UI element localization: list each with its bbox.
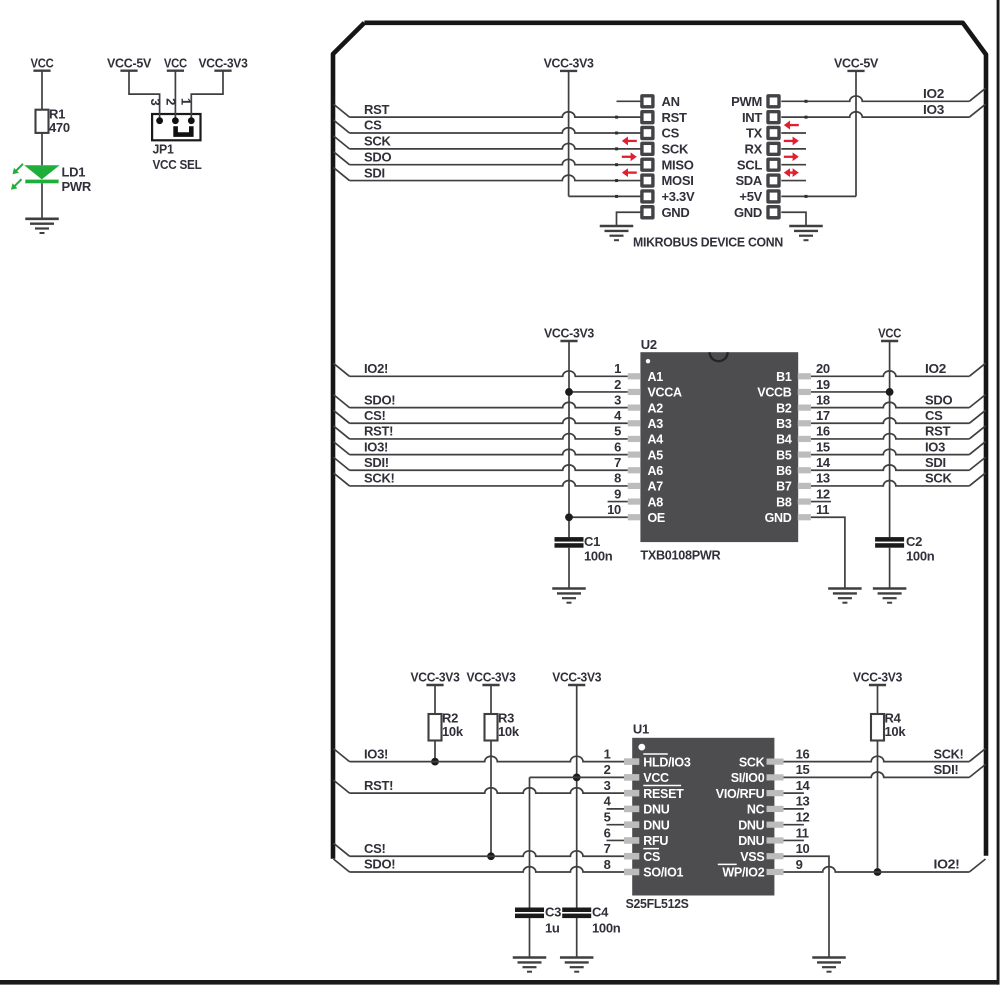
svg-text:2: 2 xyxy=(604,762,611,777)
svg-text:NC: NC xyxy=(747,803,765,817)
svg-text:15: 15 xyxy=(796,762,810,777)
svg-text:A4: A4 xyxy=(648,433,664,447)
svg-text:MISO: MISO xyxy=(662,157,694,172)
svg-text:VCC: VCC xyxy=(164,55,188,70)
svg-text:RX: RX xyxy=(745,141,763,156)
svg-text:VCC: VCC xyxy=(878,326,902,341)
svg-text:11: 11 xyxy=(816,502,829,517)
svg-text:WP/IO2: WP/IO2 xyxy=(722,866,764,880)
svg-text:9: 9 xyxy=(796,857,803,872)
svg-text:100n: 100n xyxy=(906,549,935,564)
svg-text:VCC-5V: VCC-5V xyxy=(107,55,152,70)
svg-text:SDI: SDI xyxy=(364,165,385,180)
svg-text:VCC-3V3: VCC-3V3 xyxy=(467,670,516,685)
svg-text:VCC SEL: VCC SEL xyxy=(153,157,202,172)
svg-text:SDI!: SDI! xyxy=(934,762,959,777)
svg-text:RST: RST xyxy=(925,424,950,439)
svg-text:LD1: LD1 xyxy=(62,164,86,179)
svg-text:470: 470 xyxy=(49,120,70,135)
svg-text:VCC: VCC xyxy=(643,771,669,785)
svg-text:3: 3 xyxy=(148,99,163,106)
svg-text:+3.3V: +3.3V xyxy=(662,189,695,204)
svg-text:5: 5 xyxy=(614,424,621,439)
svg-text:10: 10 xyxy=(796,841,810,856)
svg-text:A8: A8 xyxy=(648,495,664,509)
svg-text:10k: 10k xyxy=(885,724,907,739)
svg-text:RST!: RST! xyxy=(364,778,393,793)
svg-text:CS: CS xyxy=(364,118,382,133)
svg-text:SCK!: SCK! xyxy=(934,746,964,761)
svg-text:IO2: IO2 xyxy=(925,361,946,376)
svg-text:7: 7 xyxy=(614,455,621,470)
svg-text:A7: A7 xyxy=(648,480,664,494)
svg-text:3: 3 xyxy=(604,778,611,793)
svg-text:A1: A1 xyxy=(648,370,664,384)
svg-text:DNU: DNU xyxy=(738,834,764,848)
svg-text:VCC-3V3: VCC-3V3 xyxy=(552,670,601,685)
svg-text:B3: B3 xyxy=(776,417,792,431)
svg-text:VSS: VSS xyxy=(740,850,764,864)
svg-text:OE: OE xyxy=(648,511,665,525)
svg-text:9: 9 xyxy=(614,486,621,501)
svg-text:SDI: SDI xyxy=(925,455,946,470)
svg-text:VCC: VCC xyxy=(31,55,55,70)
svg-text:SCK: SCK xyxy=(739,755,765,769)
svg-text:VCCA: VCCA xyxy=(648,386,682,400)
svg-text:MIKROBUS DEVICE CONN: MIKROBUS DEVICE CONN xyxy=(633,235,783,250)
svg-text:CS: CS xyxy=(925,408,943,423)
svg-text:VCC-3V3: VCC-3V3 xyxy=(199,55,248,70)
svg-text:B8: B8 xyxy=(776,495,792,509)
svg-text:SDI!: SDI! xyxy=(364,455,389,470)
svg-text:10: 10 xyxy=(607,502,621,517)
svg-text:1: 1 xyxy=(604,746,611,761)
svg-text:C4: C4 xyxy=(592,905,609,920)
svg-text:SCK: SCK xyxy=(925,471,952,486)
svg-text:VCCB: VCCB xyxy=(757,386,791,400)
svg-text:IO2!: IO2! xyxy=(934,857,960,872)
svg-text:MOSI: MOSI xyxy=(662,173,694,188)
svg-text:100n: 100n xyxy=(592,921,621,936)
svg-text:RFU: RFU xyxy=(643,834,668,848)
svg-text:SCK: SCK xyxy=(364,134,391,149)
svg-text:14: 14 xyxy=(816,455,831,470)
svg-text:GND: GND xyxy=(765,511,792,525)
svg-text:15: 15 xyxy=(816,439,830,454)
svg-text:A6: A6 xyxy=(648,464,664,478)
svg-text:IO3: IO3 xyxy=(923,102,944,117)
svg-text:16: 16 xyxy=(816,424,830,439)
svg-text:1u: 1u xyxy=(545,921,560,936)
svg-text:B7: B7 xyxy=(776,480,792,494)
svg-text:16: 16 xyxy=(796,746,810,761)
svg-text:C2: C2 xyxy=(906,534,922,549)
svg-text:U1: U1 xyxy=(633,722,649,737)
svg-text:A5: A5 xyxy=(648,448,664,462)
svg-text:DNU: DNU xyxy=(643,803,669,817)
svg-text:13: 13 xyxy=(816,471,830,486)
svg-text:C3: C3 xyxy=(545,905,561,920)
svg-text:B5: B5 xyxy=(776,448,792,462)
svg-text:RST!: RST! xyxy=(364,424,393,439)
svg-text:14: 14 xyxy=(796,778,811,793)
svg-text:SDO: SDO xyxy=(364,149,391,164)
svg-text:SCL: SCL xyxy=(737,157,762,172)
svg-text:IO3!: IO3! xyxy=(364,439,388,454)
svg-text:PWR: PWR xyxy=(62,179,92,194)
svg-text:10k: 10k xyxy=(442,724,464,739)
svg-text:1: 1 xyxy=(178,98,193,105)
svg-text:HLD/IO3: HLD/IO3 xyxy=(643,755,691,769)
svg-text:SDO!: SDO! xyxy=(364,857,395,872)
svg-text:SDA: SDA xyxy=(735,173,762,188)
svg-text:SDO!: SDO! xyxy=(364,392,395,407)
svg-text:2: 2 xyxy=(163,98,178,105)
svg-text:SCK!: SCK! xyxy=(364,471,395,486)
svg-text:VCC-3V3: VCC-3V3 xyxy=(411,670,460,685)
svg-text:GND: GND xyxy=(662,205,690,220)
svg-text:VIO/RFU: VIO/RFU xyxy=(716,787,765,801)
svg-text:INT: INT xyxy=(742,110,762,125)
svg-text:AN: AN xyxy=(662,94,680,109)
svg-text:1: 1 xyxy=(614,361,621,376)
svg-text:6: 6 xyxy=(614,439,621,454)
svg-text:S25FL512S: S25FL512S xyxy=(626,896,690,911)
svg-text:+5V: +5V xyxy=(739,189,762,204)
svg-text:IO2!: IO2! xyxy=(364,361,388,376)
svg-text:RESET: RESET xyxy=(643,787,684,801)
svg-text:8: 8 xyxy=(604,857,611,872)
svg-text:5: 5 xyxy=(604,809,611,824)
svg-text:6: 6 xyxy=(604,825,611,840)
svg-text:VCC-3V3: VCC-3V3 xyxy=(544,55,594,70)
svg-text:2: 2 xyxy=(614,377,621,392)
svg-text:A3: A3 xyxy=(648,417,664,431)
svg-text:JP1: JP1 xyxy=(153,142,174,157)
svg-text:IO3!: IO3! xyxy=(364,746,388,761)
svg-text:RST: RST xyxy=(662,110,687,125)
svg-text:VCC-3V3: VCC-3V3 xyxy=(853,670,902,685)
svg-text:4: 4 xyxy=(604,794,612,809)
svg-text:PWM: PWM xyxy=(731,94,762,109)
svg-text:GND: GND xyxy=(734,205,762,220)
svg-text:VCC-5V: VCC-5V xyxy=(834,55,879,70)
svg-text:B4: B4 xyxy=(776,433,792,447)
svg-text:CS: CS xyxy=(643,850,660,864)
svg-text:SI/IO0: SI/IO0 xyxy=(731,771,765,785)
svg-text:TX: TX xyxy=(746,126,763,141)
svg-text:10k: 10k xyxy=(498,724,520,739)
svg-text:CS: CS xyxy=(662,126,680,141)
svg-text:8: 8 xyxy=(614,471,621,486)
svg-text:4: 4 xyxy=(614,408,622,423)
svg-text:A2: A2 xyxy=(648,401,664,415)
svg-text:IO3: IO3 xyxy=(925,439,945,454)
svg-text:RST: RST xyxy=(364,102,389,117)
svg-text:3: 3 xyxy=(614,392,621,407)
svg-text:12: 12 xyxy=(796,809,810,824)
svg-text:CS!: CS! xyxy=(364,841,386,856)
svg-text:13: 13 xyxy=(796,794,810,809)
svg-text:7: 7 xyxy=(604,841,611,856)
svg-text:18: 18 xyxy=(816,392,830,407)
svg-text:20: 20 xyxy=(816,361,830,376)
svg-text:VCC-3V3: VCC-3V3 xyxy=(544,326,594,341)
svg-text:17: 17 xyxy=(816,408,830,423)
svg-text:DNU: DNU xyxy=(643,818,669,832)
svg-text:11: 11 xyxy=(796,825,809,840)
svg-text:SCK: SCK xyxy=(662,141,689,156)
svg-text:100n: 100n xyxy=(584,549,613,564)
svg-text:C1: C1 xyxy=(584,534,600,549)
svg-text:12: 12 xyxy=(816,486,830,501)
svg-text:B1: B1 xyxy=(776,370,792,384)
svg-text:SO/IO1: SO/IO1 xyxy=(643,866,683,880)
svg-text:19: 19 xyxy=(816,377,830,392)
svg-text:IO2: IO2 xyxy=(923,86,944,101)
svg-text:SDO: SDO xyxy=(925,392,952,407)
svg-text:CS!: CS! xyxy=(364,408,386,423)
svg-text:B6: B6 xyxy=(776,464,792,478)
svg-text:DNU: DNU xyxy=(738,818,764,832)
svg-text:B2: B2 xyxy=(776,401,792,415)
svg-text:TXB0108PWR: TXB0108PWR xyxy=(640,548,721,563)
svg-text:U2: U2 xyxy=(641,337,657,352)
